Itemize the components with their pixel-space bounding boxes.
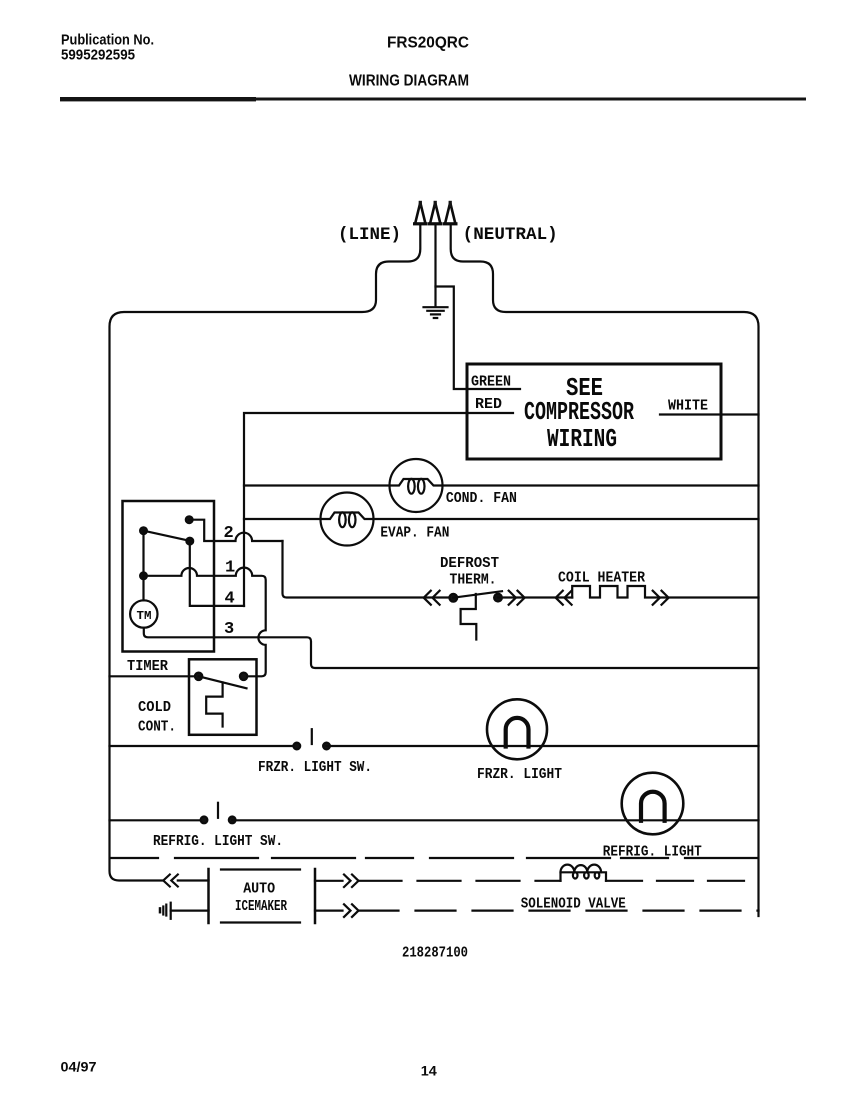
wire red: compressor to timer terminal 4 riser — [244, 413, 513, 606]
wire white: compressor to right bus — [660, 413, 759, 415]
defrost thermostat left chevrons — [424, 591, 440, 605]
cold control box — [189, 659, 257, 735]
timer contact dot C — [186, 538, 193, 545]
svg-text:REFRIG. LIGHT SW.: REFRIG. LIGHT SW. — [153, 833, 283, 850]
wire condenser fan branch — [244, 479, 759, 486]
header rule — [60, 98, 806, 101]
solenoid valve SV coil — [561, 872, 607, 881]
wire terminal2 drop to defrost line — [283, 541, 454, 598]
svg-text:EVAP. FAN: EVAP. FAN — [380, 525, 449, 542]
evap fan motor M2 circle — [321, 493, 374, 546]
svg-text:3: 3 — [224, 620, 234, 639]
wire timer B to D to motor — [142, 531, 144, 601]
icemaker feed left chevrons — [163, 875, 178, 887]
ground symbol — [424, 307, 448, 318]
timer box — [123, 501, 215, 652]
water fill tube symbol — [160, 903, 171, 919]
refrig light L2 bulb circle — [622, 773, 684, 835]
wire icemaker bottom output — [315, 909, 343, 911]
wire terminal 1: dot D to cold control — [144, 568, 266, 677]
wire terminal 3: timer motor to right bus — [144, 628, 759, 668]
label DEFROST THERM. — [440, 555, 499, 589]
label AUTO ICEMAKER — [235, 881, 287, 916]
coil heater right chevrons — [653, 591, 669, 605]
refrig light switch dot left — [201, 817, 208, 824]
timer contact dot B — [140, 527, 147, 534]
header publication number text — [61, 32, 154, 64]
freezer light filament — [506, 718, 529, 747]
svg-text:FRZR. LIGHT: FRZR. LIGHT — [477, 766, 562, 783]
wire line-side: left plug lead, top-left edge, left bus, bottom-left corner to icemaker — [110, 226, 421, 881]
line prong plug blade — [415, 201, 426, 224]
svg-text:5995292595: 5995292595 — [61, 47, 135, 64]
timer contact dot D — [140, 572, 147, 579]
svg-text:(NEUTRAL): (NEUTRAL) — [463, 225, 558, 245]
svg-text:THERM.: THERM. — [450, 572, 497, 589]
dashed separator wire — [111, 857, 757, 859]
timer motor TM circle — [130, 600, 157, 627]
svg-text:04/97: 04/97 — [61, 1059, 97, 1075]
svg-text:WIRING DIAGRAM: WIRING DIAGRAM — [349, 73, 469, 90]
label SEE COMPRESSOR WIRING — [524, 373, 634, 454]
svg-text:TM: TM — [137, 609, 152, 623]
defrost right chevrons — [509, 591, 525, 605]
timer contact dot A — [186, 516, 193, 523]
wire freezer light to right bus — [327, 745, 759, 747]
wire terminal 2: dot A to defrost drop — [189, 520, 282, 541]
refrig light switch actuator — [217, 803, 219, 818]
wire terminal 4: dot C drop to red riser — [190, 541, 244, 606]
refrig light filament — [641, 792, 665, 821]
neutral prong plug blade — [445, 201, 456, 224]
svg-text:DEFROST: DEFROST — [440, 555, 499, 572]
svg-text:218287100: 218287100 — [402, 945, 468, 962]
icemaker plug bar right — [314, 869, 317, 923]
icemaker plug bar left — [207, 869, 210, 923]
wire refrig light to right bus — [232, 819, 758, 821]
cold control contact dot right — [240, 673, 247, 680]
svg-text:WIRING: WIRING — [547, 424, 617, 454]
svg-text:COMPRESSOR: COMPRESSOR — [524, 397, 634, 427]
cond fan coil loops — [408, 479, 415, 494]
svg-text:FRZR. LIGHT SW.: FRZR. LIGHT SW. — [258, 759, 372, 776]
svg-text:14: 14 — [421, 1063, 437, 1079]
svg-text:TIMER: TIMER — [127, 658, 168, 675]
auto icemaker box bottom — [221, 921, 300, 923]
svg-text:CONT.: CONT. — [138, 719, 176, 736]
wire evaporator fan branch — [244, 513, 759, 520]
wire water symbol to icemaker plug — [171, 909, 209, 911]
svg-text:(LINE): (LINE) — [338, 225, 401, 245]
wire ground prong to earth — [434, 226, 436, 306]
wire dashed bottom to right bus — [359, 909, 759, 911]
svg-text:GREEN: GREEN — [471, 374, 511, 391]
evap fan coil loops — [339, 512, 346, 527]
svg-text:COIL HEATER: COIL HEATER — [558, 570, 645, 587]
svg-text:COLD: COLD — [138, 699, 171, 716]
coil heater left chevrons — [556, 591, 572, 605]
cold control contact dot left — [195, 673, 202, 680]
freezer light L1 bulb circle — [487, 699, 547, 759]
svg-text:ICEMAKER: ICEMAKER — [235, 898, 287, 915]
svg-text:COND. FAN: COND. FAN — [446, 490, 517, 507]
compressor box U1 — [467, 364, 721, 459]
wire chevron to icemaker plug — [178, 879, 209, 881]
icemaker top output chevrons — [344, 875, 359, 888]
freezer light switch dot right — [323, 743, 330, 750]
timer switch arm B-C — [144, 531, 193, 542]
svg-text:AUTO: AUTO — [243, 881, 275, 898]
wire left bus to freezer light switch — [110, 745, 297, 747]
defrost thermostat contact dot left — [449, 594, 457, 602]
wire solenoid to right bus dashed — [606, 880, 759, 882]
cond fan motor M1 circle — [390, 459, 443, 512]
label COLD CONT. — [138, 699, 176, 736]
wire neutral-side: right plug lead, top-right edge, right bus border — [451, 226, 759, 916]
cold control bellows — [206, 683, 222, 727]
svg-text:RED: RED — [475, 396, 502, 413]
freezer light switch actuator — [311, 729, 313, 744]
auto icemaker box top — [221, 868, 300, 870]
refrig light switch dot right — [229, 817, 236, 824]
ground prong plug blade — [430, 201, 441, 224]
freezer light switch dot left — [293, 743, 300, 750]
svg-text:FRS20QRC: FRS20QRC — [387, 35, 469, 52]
defrost thermostat bellows — [461, 594, 477, 640]
coil heater R1 square element — [572, 586, 758, 598]
icemaker bottom output chevrons — [344, 904, 359, 917]
wire green: ground stem to compressor box — [436, 287, 521, 390]
wire left bus to refrig light switch — [110, 819, 205, 821]
wire defrost right with chevrons — [498, 596, 572, 598]
cold control switch arm — [199, 676, 247, 688]
defrost thermostat contact dot right — [494, 594, 502, 602]
defrost thermostat arm — [453, 591, 502, 598]
svg-text:1: 1 — [225, 559, 235, 578]
svg-text:WHITE: WHITE — [668, 398, 708, 415]
wire dashed to solenoid valve — [359, 880, 561, 882]
wire left bus to cold control — [110, 675, 199, 677]
wire icemaker top output — [315, 880, 343, 882]
